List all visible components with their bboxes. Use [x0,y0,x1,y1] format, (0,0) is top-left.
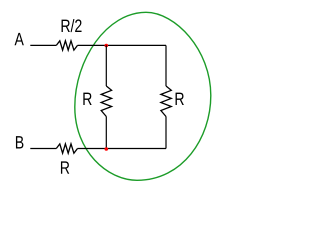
wire bottom rail to bottom-right corner [78,148,167,150]
value label R (bottom resistor) [61,161,69,173]
resistor R (right vertical) [161,86,171,117]
wire right branch lower segment [165,117,167,149]
wire left branch upper segment [105,45,107,86]
green highlight loop around parallel resistors [75,12,211,180]
junction node top (red dot) [105,44,109,48]
node A [15,33,24,45]
resistor R (bottom horizontal) [56,144,77,153]
wire from node B to resistor R [30,148,56,150]
value label R/2 [62,19,82,32]
wire right branch upper segment [165,45,167,86]
value label R (left resistor) [83,93,91,105]
resistor R (left vertical) [101,86,111,117]
node B [16,136,23,148]
wire top rail from R/2 to top-right corner [78,44,167,46]
resistor R/2 (horizontal) [56,41,77,50]
junction node bottom (red dot) [105,147,109,151]
wire from node A to resistor R/2 [30,44,56,46]
wire left branch lower segment [105,117,107,149]
value label R (right resistor) [176,93,184,105]
